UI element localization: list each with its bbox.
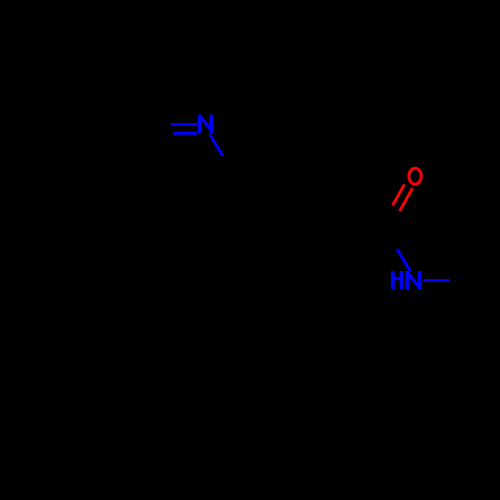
wire: C=O double bond left line (red half) — [393, 184, 405, 205]
node O1: carbonyl oxygen label "O" — [409, 168, 421, 184]
wire: C=O double bond right line (red half) — [400, 188, 413, 211]
node N1: ring nitrogen label "N" — [198, 115, 213, 133]
wire: C=N double bond main line — [171, 123, 197, 126]
wire: N1-C ring bond (blue half) — [210, 135, 223, 156]
wire: C-N amide bond (blue half) — [397, 249, 410, 271]
wire: C=N double bond inner line — [173, 132, 197, 135]
wire: N2-CH3 bond (blue half) — [423, 279, 449, 282]
node N2: amide nitrogen label "HN" — [391, 271, 422, 289]
